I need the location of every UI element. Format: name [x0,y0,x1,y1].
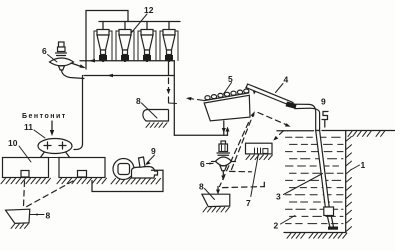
ground surface line left of pipe [277,130,314,132]
tank 7 internals [255,148,268,154]
drill pipe 3 in trench [316,131,330,208]
ground hatching under tank 10 [1,178,51,184]
pump 9 upright fitting [139,157,146,167]
node: cyclone 1 underflow junction [102,59,105,62]
motor of pump 6 (left) [56,42,67,56]
hydrocyclone 1 side pipes [94,31,112,61]
tank 2 drain box [78,171,87,178]
wire: downcomer into mixer area [74,76,83,150]
svg-text:8: 8 [46,211,51,221]
svg-text:8: 8 [136,96,141,106]
leader for label 6 [48,55,58,63]
svg-text:6: 6 [42,46,47,56]
leader for label 5 [224,83,232,95]
wire: dashed drop to sludge trough 8a [168,78,170,103]
leader for label 1 [352,165,360,170]
feed curve from pipe 4 onto shaker [246,86,255,92]
svg-text:6: 6 [200,159,205,169]
shaker 5 deck line [204,93,249,101]
ground hatching under tank 2 [57,178,107,184]
leader for 8b [205,189,215,200]
dashed run from pump 6 outlet [230,170,252,172]
trench wall hatching [346,137,351,232]
svg-text:9: 9 [321,97,326,107]
surface hatching right of trench [348,131,385,136]
leader for 8c with dot [30,214,44,216]
leader for label 3 [284,174,323,195]
wire: manifold drop 3 [146,22,148,30]
node: cyclone 4 underflow junction [168,59,171,62]
trench bottom [284,232,346,234]
dashed suction to tank 7 (arrow into corner) [276,131,284,138]
dashed return into trench (arrow down-left) [258,113,287,126]
wire: manifold drop 1 [102,22,104,30]
wire: return line to mixer [84,75,174,77]
wire: manifold drop 4 [168,22,170,30]
leader for label 2 [281,216,296,225]
dashed leader tank2 to trough 8c [25,181,73,208]
svg-text:8: 8 [199,182,204,192]
pump 6 (middle) lens body [216,157,232,166]
wire: right downcomer [173,61,175,136]
ground hatching under tank 7 [246,155,272,160]
node: cyclone 2 underflow junction [124,59,127,62]
ground surface line right of pipe [322,130,395,132]
svg-text:2: 2 [274,221,279,231]
ground hatching under pump 9 [111,178,161,184]
slurry (mud) level dashes in trench [286,137,344,223]
pump 6 (left) lens body [50,58,74,66]
arrow on return line (flow left) [107,74,113,78]
wire: end riser tick with up arrow [227,129,229,135]
trough 8b (middle spoil) [202,194,230,206]
pump 6 (middle) side ticks [212,161,236,163]
wire: dashed shaker reject to trough (arrow left) [189,98,204,100]
leader for middle 6 [207,163,214,165]
arrow: bentonite into mixer 11 [51,121,53,133]
leader for label 11 [34,130,45,138]
hydrocyclone 2 side pipes [116,31,134,61]
svg-text:11: 11 [24,122,33,132]
ground hatching under trough 8b [203,207,229,212]
leader for label 4 [276,84,284,93]
drill bit at pipe end [324,207,334,216]
bit lower stem [327,216,338,230]
wire: shaker drain pipe [223,121,225,135]
motor of pump 6 (middle) [217,141,230,155]
arrow into trough 8b [217,187,219,192]
pipe 4 (slurry discharge pipe) [246,84,293,106]
node: cyclone 3 underflow junction [146,59,149,62]
mixer 11 body [38,139,72,154]
wire: cyclone underflow header [80,60,174,62]
svg-text:4: 4 [284,75,289,85]
svg-text:7: 7 [246,198,251,208]
hydrocyclone 4 body [163,30,175,61]
leader for label 12 [127,14,147,38]
hydrocyclone 2 body [119,30,131,61]
arrow on header (flow left) [89,59,95,63]
wire: cyclone feed manifold [99,21,180,23]
leader for label 10 [19,146,31,162]
pipe nozzle at trench [286,102,297,109]
mixer 11 stand legs [40,153,70,159]
dashed suction line up to discharge pipe [232,115,254,170]
elbow pipe turning down into trench [295,104,320,130]
hydrocyclone 4 side pipes [160,31,178,61]
tank 7 (suction tank) [246,143,273,154]
tank 10 drain box [21,171,29,178]
hydrocyclone 1 body [97,30,109,61]
ground hatching under trough 8a [146,123,167,128]
svg-text:1: 1 [361,160,366,170]
trough 8a (cuttings) [143,110,169,122]
leader for 8a [142,103,158,118]
foundation outline right of pump [92,170,163,191]
trench right wall [345,131,347,233]
trough 8c (bottom-left spoil) [6,209,30,223]
wire: bottom run to pump 6 [174,134,227,136]
pump 6 funnel and lower pipe [59,66,65,70]
tank 2 (right reserve tank) [59,158,105,178]
leader for label 7 [251,155,258,197]
hydrocyclone 3 side pipes [138,31,156,61]
wire: feed riser to manifold [86,11,128,70]
pump 9 impeller housing [113,159,134,180]
pump 6 (middle) funnel and outlet arrow [220,166,227,171]
dashed leader tank10 to trough 8c [24,181,25,207]
mixer 11 agitator marks [44,142,66,149]
svg-text:12: 12 [144,5,154,15]
ground hatching under trough 8c [11,224,28,229]
pump 9 body [132,167,158,179]
svg-text:3: 3 [276,192,281,202]
wire: header drop at right [168,61,170,76]
dashed run from trough 8b to riser tick [223,187,265,188]
dashed cuttings line shaker to trough 8b [220,123,249,187]
leader for pump 9 [147,155,155,164]
trench bottom hatching [287,233,347,238]
tank 10 (left reserve tank) [3,158,49,178]
svg-text:5: 5 [228,74,233,84]
shaker 5 deck rollers [205,89,249,100]
wire: manifold drop 2 [124,22,126,30]
hydrocyclone 3 body [141,30,153,61]
svg-text:9: 9 [151,146,156,156]
svg-text:Бентонит: Бентонит [22,113,67,120]
shaker 5 body [204,95,250,121]
svg-text:10: 10 [8,138,18,148]
pump 6 outlet arrow to riser [71,63,84,68]
pipe holder fitting [322,112,328,128]
